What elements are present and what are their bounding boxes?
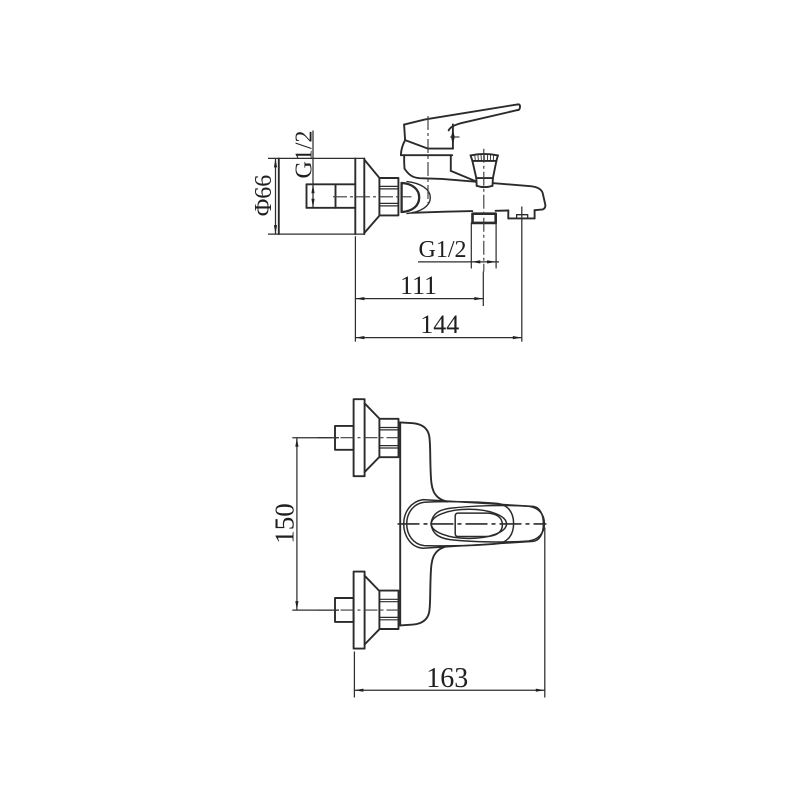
- ball joint cap arc: [402, 183, 420, 212]
- spout outlet notch: [517, 215, 528, 219]
- ball sphere arc: [407, 182, 430, 214]
- lever front face: [452, 124, 454, 148]
- connector nut outline: [379, 178, 398, 215]
- handle cap skirt: [401, 140, 405, 155]
- dim G1/2 shower line: [418, 261, 499, 263]
- spout boss right edge: [534, 210, 536, 218]
- upper nut: [379, 419, 398, 457]
- body shoulder edge: [451, 171, 476, 182]
- dim 150 extension bottom: [292, 609, 339, 611]
- arrows G1/2 rotated: [311, 184, 314, 193]
- wall nipple left end: [306, 184, 308, 208]
- dim 150 line: [296, 438, 298, 610]
- main axis centerline: [398, 523, 547, 525]
- knob stem left: [475, 178, 477, 186]
- neck ring upper: [428, 148, 453, 150]
- body bottom edge middle: [496, 210, 509, 212]
- svg-text:G1/2: G1/2: [292, 131, 318, 179]
- dimensions, top drawing: [268, 131, 522, 342]
- upper flange plate: [354, 399, 365, 476]
- svg-text:144: 144: [420, 310, 459, 339]
- upper horn edge: [400, 422, 447, 501]
- dim 163 extension right: [544, 528, 546, 698]
- knob stem bottom: [477, 186, 493, 187]
- rotation double-arrow on lever: [451, 130, 455, 144]
- dim G1/2 rotated line: [312, 131, 314, 208]
- centerlines, top drawing: [333, 116, 484, 272]
- knob knurl hatching: [475, 154, 494, 160]
- lower flange cone bottom slant: [365, 629, 380, 644]
- svg-text:G1/2: G1/2: [419, 237, 467, 263]
- lower inlet stub: [335, 598, 354, 622]
- knob band right: [496, 155, 498, 161]
- diverter knob top: [471, 154, 498, 156]
- cartridge axis centerline: [427, 116, 429, 203]
- body top edge: [405, 169, 546, 211]
- diverter/shower axis centerline: [483, 149, 485, 272]
- spout boss bottom: [508, 217, 534, 219]
- body wall line: [399, 422, 401, 625]
- lower nut facets: [379, 599, 398, 620]
- dimension arrowheads, bottom drawing: [295, 438, 545, 692]
- shower pipe right edge: [495, 223, 497, 268]
- svg-text:163: 163: [426, 663, 468, 694]
- lower inlet centerline: [318, 609, 403, 611]
- upper inlet stub: [335, 426, 354, 450]
- dim Phi66 line: [275, 158, 277, 234]
- flange bell bottom slant: [364, 216, 379, 233]
- dim Phi66 extension bottom: [268, 233, 364, 235]
- lower flange cone top slant: [365, 576, 380, 591]
- handle cap bottom edge: [405, 140, 428, 149]
- arrows G1/2 shower: [471, 260, 480, 263]
- flange escutcheon right face outer: [363, 158, 365, 234]
- lever top edge: [404, 104, 517, 124]
- diverter knob silhouette mask: [471, 154, 498, 187]
- nut facet line 2: [379, 188, 398, 190]
- nut facet line 3: [379, 202, 398, 204]
- rotation arrow tick: [450, 136, 459, 138]
- wall plane extension line: [354, 236, 356, 341]
- dim 163 line: [354, 689, 544, 691]
- handle base oval: [431, 509, 506, 538]
- flange escutcheon right face inner: [354, 158, 356, 234]
- wall nipple G1/2 top edge: [307, 183, 356, 185]
- arrows 144: [355, 336, 364, 339]
- svg-text:111: 111: [400, 271, 437, 300]
- upper inlet centerline: [318, 437, 403, 439]
- neck ring lower: [401, 154, 452, 156]
- lever bottom edge: [449, 110, 518, 130]
- shower axis extension line: [482, 272, 484, 307]
- knob taper left: [472, 161, 476, 178]
- dim 150 extension top: [292, 437, 339, 439]
- knob taper bottom: [476, 177, 493, 179]
- centerlines, bottom drawing: [318, 438, 547, 610]
- flange escutcheon left face: [278, 158, 280, 234]
- inlet axis centerline: [333, 196, 412, 198]
- lower horn edge: [400, 546, 447, 625]
- shower outlet collar: [473, 214, 496, 223]
- dim 163 extension left: [353, 652, 355, 698]
- body bottom edge left: [412, 211, 472, 213]
- handle cap left edge: [404, 125, 405, 141]
- lever tip cap: [517, 104, 520, 110]
- knob stem right: [492, 178, 494, 186]
- dim Phi66 extension top: [268, 157, 364, 159]
- lever stem rounded rect: [455, 513, 502, 536]
- lower flange plate: [354, 572, 365, 649]
- dim 144 line: [355, 337, 521, 339]
- spout boss left edge: [507, 211, 509, 219]
- arrows 163: [354, 689, 363, 692]
- flange bell top slant: [364, 160, 379, 178]
- dim 111 line: [355, 298, 483, 300]
- wall nipple G1/2 bottom edge: [307, 207, 356, 209]
- handle neck left: [403, 155, 405, 168]
- nut facet line 1: [379, 185, 398, 187]
- lower nut: [379, 591, 398, 629]
- shower pipe left edge: [470, 223, 472, 268]
- nut facet line 4: [379, 205, 398, 207]
- knob taper right: [493, 161, 497, 178]
- knob band bottom: [472, 160, 496, 162]
- arrows 111: [355, 297, 364, 300]
- upper nut facets: [379, 428, 398, 449]
- handle dome outline: [407, 502, 514, 546]
- dimension arrowheads, top drawing: [274, 158, 522, 339]
- svg-text:Φ66: Φ66: [251, 175, 277, 217]
- ball joint flat face: [400, 183, 402, 212]
- body outline: [404, 500, 544, 549]
- lever grip outline: [431, 506, 545, 542]
- handle neck right: [450, 155, 452, 171]
- upper flange cone bottom slant: [365, 457, 380, 472]
- arrows Phi66: [274, 158, 277, 167]
- knob band left: [471, 155, 473, 161]
- arrows 150: [295, 438, 298, 447]
- wall nipple thread line: [335, 184, 337, 208]
- upper flange cone top slant: [365, 403, 380, 418]
- spout axis extension line: [521, 207, 523, 342]
- svg-text:150: 150: [270, 503, 300, 544]
- dimensions, bottom drawing: [292, 438, 545, 698]
